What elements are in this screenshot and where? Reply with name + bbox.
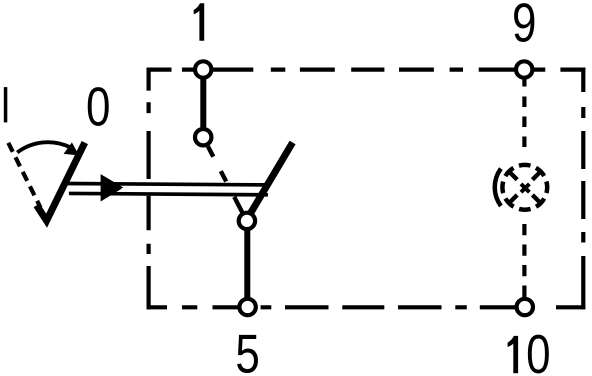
wire: right border dash-dot line of switch housing (581, 68, 585, 310)
actuation arc arrow from position 0 to I (17, 142, 70, 152)
lamp L1: reflector arc (495, 169, 501, 206)
actuation direction arrowhead on double link (101, 174, 124, 201)
lamp L1: light ray arrow SE (532, 195, 540, 203)
actuator linkage white band (erases lines behind double link) (66, 184, 268, 195)
label: terminal 1 (194, 3, 205, 41)
node: fixed contact circle (195, 129, 211, 145)
wire: thick conductor terminal 1 to fixed contact (200, 72, 206, 133)
terminal 1 circle (195, 61, 211, 77)
arrowhead of actuation arc (64, 142, 79, 155)
wire: dashed vertical line lamp to terminal 10 (522, 224, 526, 297)
svg-text:0: 0 (526, 323, 550, 376)
label: switch position I (4, 87, 8, 122)
wire: solid stub from terminal 9 down (522, 77, 526, 87)
wire: bottom border dash-dot line of switch housing (147, 305, 586, 309)
wire: actuator double link lower line (69, 193, 268, 194)
lamp L1: light ray arrow NW (509, 172, 517, 180)
svg-text:0: 0 (86, 76, 110, 138)
white notch at arrowhead tip (121, 186, 127, 192)
rocker actuator in position I (solid lever, check shape) (37, 143, 85, 221)
wire: dashed vertical line terminal 9 to lamp (522, 97, 526, 148)
wire: thick conductor moving-contact pivot to terminal 5 (244, 225, 250, 304)
svg-text:5: 5 (235, 323, 259, 376)
wire: dashed contact travel path from fixed contact to pivot (208, 146, 243, 213)
wire: top border dash-dot line of switch housing (147, 67, 586, 71)
wire: left border dash-dot line of switch housing (147, 68, 151, 310)
label: terminal 10 (508, 336, 518, 373)
terminal 10 circle (517, 299, 533, 315)
lamp L1: light ray arrow SW (509, 195, 517, 203)
terminal 9 circle (516, 61, 532, 77)
rocker actuator alternate position 0 (dashed lever) (8, 143, 40, 208)
terminal 5 circle (239, 299, 255, 315)
lamp L1: center cross (521, 184, 529, 192)
node: moving contact pivot circle (239, 213, 255, 229)
lamp L1: dashed circle body (502, 165, 547, 210)
switch lever (moving contact arm) (250, 143, 292, 214)
svg-text:9: 9 (512, 0, 536, 54)
lamp L1: light ray arrow NE (532, 172, 540, 180)
wire: actuator double link upper line (66, 184, 268, 185)
